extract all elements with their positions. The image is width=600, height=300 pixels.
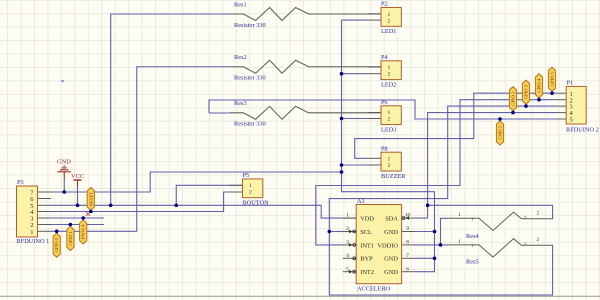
- svg-text:2: 2: [388, 18, 391, 24]
- svg-text:P2: P2: [381, 1, 388, 8]
- svg-text:1: 1: [388, 12, 391, 18]
- wire BUZZER pin2 to GND vertical: [342, 164, 368, 166]
- pin stubs ACCELERO left pins 1-5: [343, 217, 357, 219]
- wire RFDUINO1 pin4 to BOUTON pin2: [51, 192, 229, 212]
- svg-text:2: 2: [537, 237, 540, 243]
- svg-text:VDD: VDD: [360, 216, 374, 223]
- svg-text:2: 2: [346, 226, 349, 232]
- wire RFDUINO1 pin7 (GND) east run: [51, 172, 342, 192]
- pin stubs RFDUINO1 pins 7-1: [38, 191, 52, 193]
- svg-text:LED1: LED1: [381, 28, 396, 35]
- svg-text:2: 2: [388, 163, 391, 169]
- svg-text:1: 1: [346, 213, 349, 219]
- svg-text:1: 1: [249, 183, 252, 189]
- svg-text:SDA: SDA: [385, 216, 398, 223]
- connector P2 LED1 box: [381, 8, 401, 27]
- svg-text:Resistor 330: Resistor 330: [234, 121, 266, 128]
- svg-text:RESET: RESET: [88, 192, 93, 206]
- svg-text:SCL: SCL: [360, 229, 372, 236]
- svg-text:1: 1: [30, 229, 33, 236]
- svg-text:VDDIO: VDDIO: [377, 242, 398, 249]
- svg-text:GND: GND: [384, 229, 398, 236]
- wire ACCELERO pin7 GND stub: [415, 257, 435, 259]
- svg-text:GPIO 1: GPIO 1: [68, 231, 73, 246]
- svg-text:INT2: INT2: [360, 269, 374, 276]
- wire RFDUINO2 pin3 to ACCELERO SCL and Res5 (SCL net): [329, 106, 555, 295]
- connector P6 LED3 box: [381, 106, 401, 125]
- wire GND vertical (LED/BUZZER cathodes): [342, 20, 435, 272]
- port GPIO0 on RFDUINO1 pin1: [53, 233, 60, 257]
- wire ACCELERO SCL pin2 stub: [329, 231, 344, 233]
- resistor R3 zigzag: [230, 106, 381, 119]
- svg-text:Res5: Res5: [466, 259, 479, 266]
- svg-text:Res2: Res2: [234, 54, 247, 61]
- resistor R1 zigzag: [230, 8, 381, 21]
- svg-text:Resistor 330: Resistor 330: [234, 22, 266, 29]
- svg-text:GPIO 4: GPIO 4: [537, 78, 542, 93]
- wire BOUTON pin1 to VCC: [176, 185, 242, 205]
- ground symbol GND: [58, 166, 71, 180]
- svg-text:BOUTON: BOUTON: [243, 200, 270, 207]
- ic A1 ACCELERO box: [356, 205, 401, 284]
- port RESET on RFDUINO1 pin4 wire: [87, 188, 94, 211]
- svg-text:1: 1: [388, 65, 391, 71]
- wire ACCELERO VDDIO pin8 to pull-ups: [415, 244, 449, 246]
- svg-text:P4: P4: [381, 54, 389, 61]
- wire RFDUINO2 pin4 to ACCELERO SDA: [415, 113, 556, 219]
- svg-text:GPIO 3: GPIO 3: [524, 84, 529, 99]
- wire VDDIO riser to Res4 left: [441, 218, 449, 245]
- pin stubs LED3: [368, 112, 382, 114]
- svg-text:Res4: Res4: [466, 233, 479, 240]
- svg-text:9: 9: [406, 226, 409, 232]
- wire RFDUINO1 pin1 to Res2/LED2: [51, 67, 230, 232]
- connector P3 RFDUINO1 box: [17, 186, 38, 237]
- stray dot artifact: [62, 80, 64, 82]
- port GPIO2 on RFDUINO2 pin4 wire: [509, 87, 516, 111]
- svg-text:1: 1: [388, 157, 391, 163]
- svg-text:5: 5: [570, 117, 573, 124]
- svg-text:GPIO 5: GPIO 5: [550, 72, 555, 87]
- resistor R4 zigzag: [448, 212, 553, 230]
- port GPIO4 on RFDUINO2 pin2 wire: [535, 74, 542, 98]
- pin stubs BUZZER: [368, 157, 382, 159]
- svg-text:RFDUINO 2: RFDUINO 2: [566, 126, 599, 133]
- svg-text:7: 7: [406, 253, 409, 259]
- wire Res3 left lead: [209, 112, 230, 114]
- svg-text:INT1: INT1: [360, 242, 374, 249]
- port GND2 on RFDUINO2 pin5 wire: [496, 121, 503, 145]
- pin stubs LED1: [368, 13, 382, 15]
- port GPIO1 on RFDUINO1 pin2: [67, 226, 74, 250]
- port noerc marker: [86, 212, 90, 216]
- svg-text:1: 1: [458, 239, 461, 245]
- svg-text:8: 8: [406, 240, 409, 246]
- svg-text:VCC: VCC: [71, 173, 84, 180]
- port PWM on RFDUINO1 pin3: [80, 220, 87, 244]
- connector P4 LED2 box: [381, 61, 401, 80]
- svg-text:GND: GND: [384, 256, 398, 263]
- wire Res1 feed riser (VCC to Res1/LED1): [111, 14, 230, 205]
- wire LED1 pin2 to GND vertical: [342, 19, 368, 21]
- pin stubs RFDUINO2 pins 1-5: [556, 92, 567, 94]
- svg-text:P8: P8: [381, 145, 388, 152]
- svg-text:GND: GND: [384, 269, 398, 276]
- svg-text:Resistor 330: Resistor 330: [234, 75, 266, 82]
- pin stubs BOUTON: [229, 184, 243, 186]
- connector P1 RFDUINO2 box: [566, 86, 586, 124]
- wire RFDUINO1 pin2 stub: [51, 224, 104, 226]
- ic A1 pin decorations: [353, 230, 356, 233]
- svg-text:1: 1: [388, 110, 391, 116]
- wire LED3 pin2 to GND vertical: [342, 118, 368, 120]
- junction dots: [62, 190, 66, 194]
- pin stubs LED2: [368, 66, 382, 68]
- svg-text:2: 2: [388, 117, 391, 123]
- connector P5 BOUTON box: [243, 179, 263, 198]
- svg-text:Res3: Res3: [234, 100, 247, 107]
- svg-text:LED3: LED3: [381, 127, 396, 134]
- svg-text:GND 2: GND 2: [498, 126, 503, 140]
- svg-text:BYP: BYP: [360, 256, 373, 263]
- svg-text:GPIO 0: GPIO 0: [54, 237, 59, 252]
- svg-text:A1: A1: [357, 198, 365, 205]
- port GPIO5 on RFDUINO2 pin1 wire: [548, 67, 555, 91]
- wire RFDUINO2 pin2 to ACCELERO INT1: [316, 100, 556, 245]
- svg-text:P1: P1: [567, 79, 574, 86]
- svg-text:2: 2: [388, 72, 391, 78]
- resistor R2 zigzag: [230, 60, 381, 73]
- svg-text:ACCELERO: ACCELERO: [357, 286, 391, 293]
- svg-text:6: 6: [406, 266, 409, 272]
- svg-text:P3: P3: [17, 179, 24, 186]
- port GPIO3 on RFDUINO2 pin3 wire: [522, 80, 529, 104]
- power symbol VCC: [74, 179, 82, 181]
- svg-text:3: 3: [346, 240, 349, 246]
- svg-text:2: 2: [537, 211, 540, 217]
- wire RFDUINO1 pin3 stub: [51, 217, 104, 219]
- svg-text:P6: P6: [381, 99, 388, 106]
- wire LED2 pin2 to GND vertical: [342, 73, 368, 75]
- svg-text:P5: P5: [243, 172, 250, 179]
- wire RFDUINO2 pin1 to BUZZER pin1: [355, 93, 556, 158]
- connector P8 BUZZER box: [381, 152, 401, 171]
- svg-text:RFDUINO 1: RFDUINO 1: [17, 238, 50, 245]
- svg-text:GPIO 2: GPIO 2: [511, 91, 516, 106]
- svg-text:1: 1: [458, 212, 461, 218]
- svg-text:4: 4: [346, 253, 349, 259]
- wire Res3 to RFDUINO2 pin5: [209, 100, 556, 119]
- svg-text:LED2: LED2: [381, 82, 396, 89]
- resistor R5 zigzag: [448, 239, 553, 257]
- wire SDA branch to Res4 (pull-up): [428, 205, 553, 218]
- wire ACCELERO pin9 GND stub: [415, 231, 435, 233]
- svg-text:BUZZER: BUZZER: [381, 173, 406, 180]
- svg-text:PWM 4: PWM 4: [81, 224, 86, 239]
- wire VCC net: RFDUINO1 pin5 to ACCELERO VDD: [51, 205, 356, 218]
- sheet border bottom: [0, 295, 600, 297]
- svg-text:2: 2: [249, 190, 252, 196]
- svg-text:GND: GND: [57, 159, 71, 166]
- svg-text:5: 5: [346, 266, 349, 272]
- svg-text:Res1: Res1: [234, 1, 247, 8]
- pin stubs ACCELERO right pins 10-6: [402, 217, 415, 219]
